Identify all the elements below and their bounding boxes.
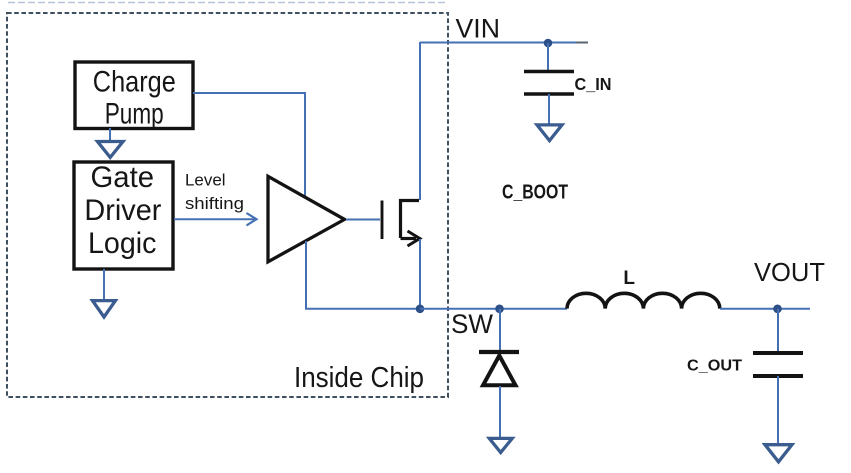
charge pump box U1 bbox=[75, 62, 193, 129]
svg-text:C_OUT: C_OUT bbox=[687, 357, 743, 374]
node junction dot SW / diode bbox=[495, 305, 504, 314]
node junction dot VOUT bbox=[773, 305, 782, 314]
svg-text:C_IN: C_IN bbox=[575, 74, 612, 94]
wire transistor source down to SW rail bbox=[419, 239, 421, 309]
ground under C_IN bbox=[537, 125, 562, 141]
node junction dot VIN / C_IN bbox=[544, 39, 553, 48]
svg-text:Pump: Pump bbox=[105, 98, 164, 131]
svg-text:Driver: Driver bbox=[84, 194, 161, 227]
capacitor C_IN plates bbox=[524, 70, 574, 74]
wire VIN down to transistor drain bbox=[419, 42, 421, 200]
wire buffer bottom to SW rail bbox=[306, 241, 420, 309]
inductor L bbox=[567, 293, 720, 308]
transistor Q1 gate bar bbox=[381, 201, 384, 240]
transistor Q1 channel and drain bend bbox=[401, 201, 420, 239]
wire VIN to C_IN top plate bbox=[547, 43, 549, 71]
svg-text:Logic: Logic bbox=[88, 227, 157, 260]
svg-text:VOUT: VOUT bbox=[754, 257, 825, 287]
arrow gate driver to buffer bbox=[174, 218, 254, 220]
svg-text:shifting: shifting bbox=[185, 194, 244, 213]
wire charge pump output to buffer top bbox=[193, 93, 305, 196]
wire charge pump to gate driver arrow bbox=[109, 128, 111, 140]
ground under C_OUT bbox=[765, 445, 792, 462]
svg-text:Gate: Gate bbox=[91, 161, 155, 194]
wire C_OUT bottom plate to ground bbox=[777, 376, 779, 444]
wire VIN rail bbox=[420, 42, 576, 44]
wire diode anode to ground bbox=[499, 386, 501, 437]
transistor Q1 source arrow bbox=[401, 237, 417, 240]
wire gate driver to ground bbox=[103, 269, 105, 299]
svg-text:C_BOOT: C_BOOT bbox=[502, 182, 568, 204]
node junction dot transistor source on SW rail bbox=[416, 305, 425, 314]
svg-text:Level: Level bbox=[185, 171, 226, 190]
ground under gate driver logic bbox=[93, 301, 116, 317]
svg-text:SW: SW bbox=[451, 309, 493, 339]
wire SW to diode cathode bbox=[499, 309, 501, 350]
gate driver logic box U2 bbox=[74, 162, 173, 269]
ground under diode bbox=[489, 438, 512, 452]
wire VIN rail gray tail bbox=[576, 42, 588, 44]
wire inductor to VOUT bbox=[720, 308, 810, 310]
capacitor C_OUT plates bbox=[753, 351, 803, 355]
faint top border remnant line bbox=[8, 2, 448, 4]
op-amp buffer driver U3 bbox=[268, 176, 345, 261]
svg-text:L: L bbox=[623, 268, 635, 289]
svg-text:Inside Chip: Inside Chip bbox=[294, 362, 424, 394]
wire buffer output to MOSFET gate bbox=[346, 219, 380, 221]
wire C_IN bottom plate to ground bbox=[548, 94, 550, 124]
svg-text:VIN: VIN bbox=[456, 13, 501, 43]
svg-text:Charge: Charge bbox=[93, 65, 176, 98]
diode D1 triangle bbox=[483, 356, 516, 386]
hollow arrow charge pump to gate driver bbox=[98, 142, 124, 158]
diode D1 cathode bar bbox=[479, 350, 519, 354]
dashed chip boundary box bbox=[7, 13, 448, 397]
wire SW rail to inductor bbox=[420, 308, 567, 310]
wire VOUT to C_OUT top plate bbox=[777, 309, 779, 351]
